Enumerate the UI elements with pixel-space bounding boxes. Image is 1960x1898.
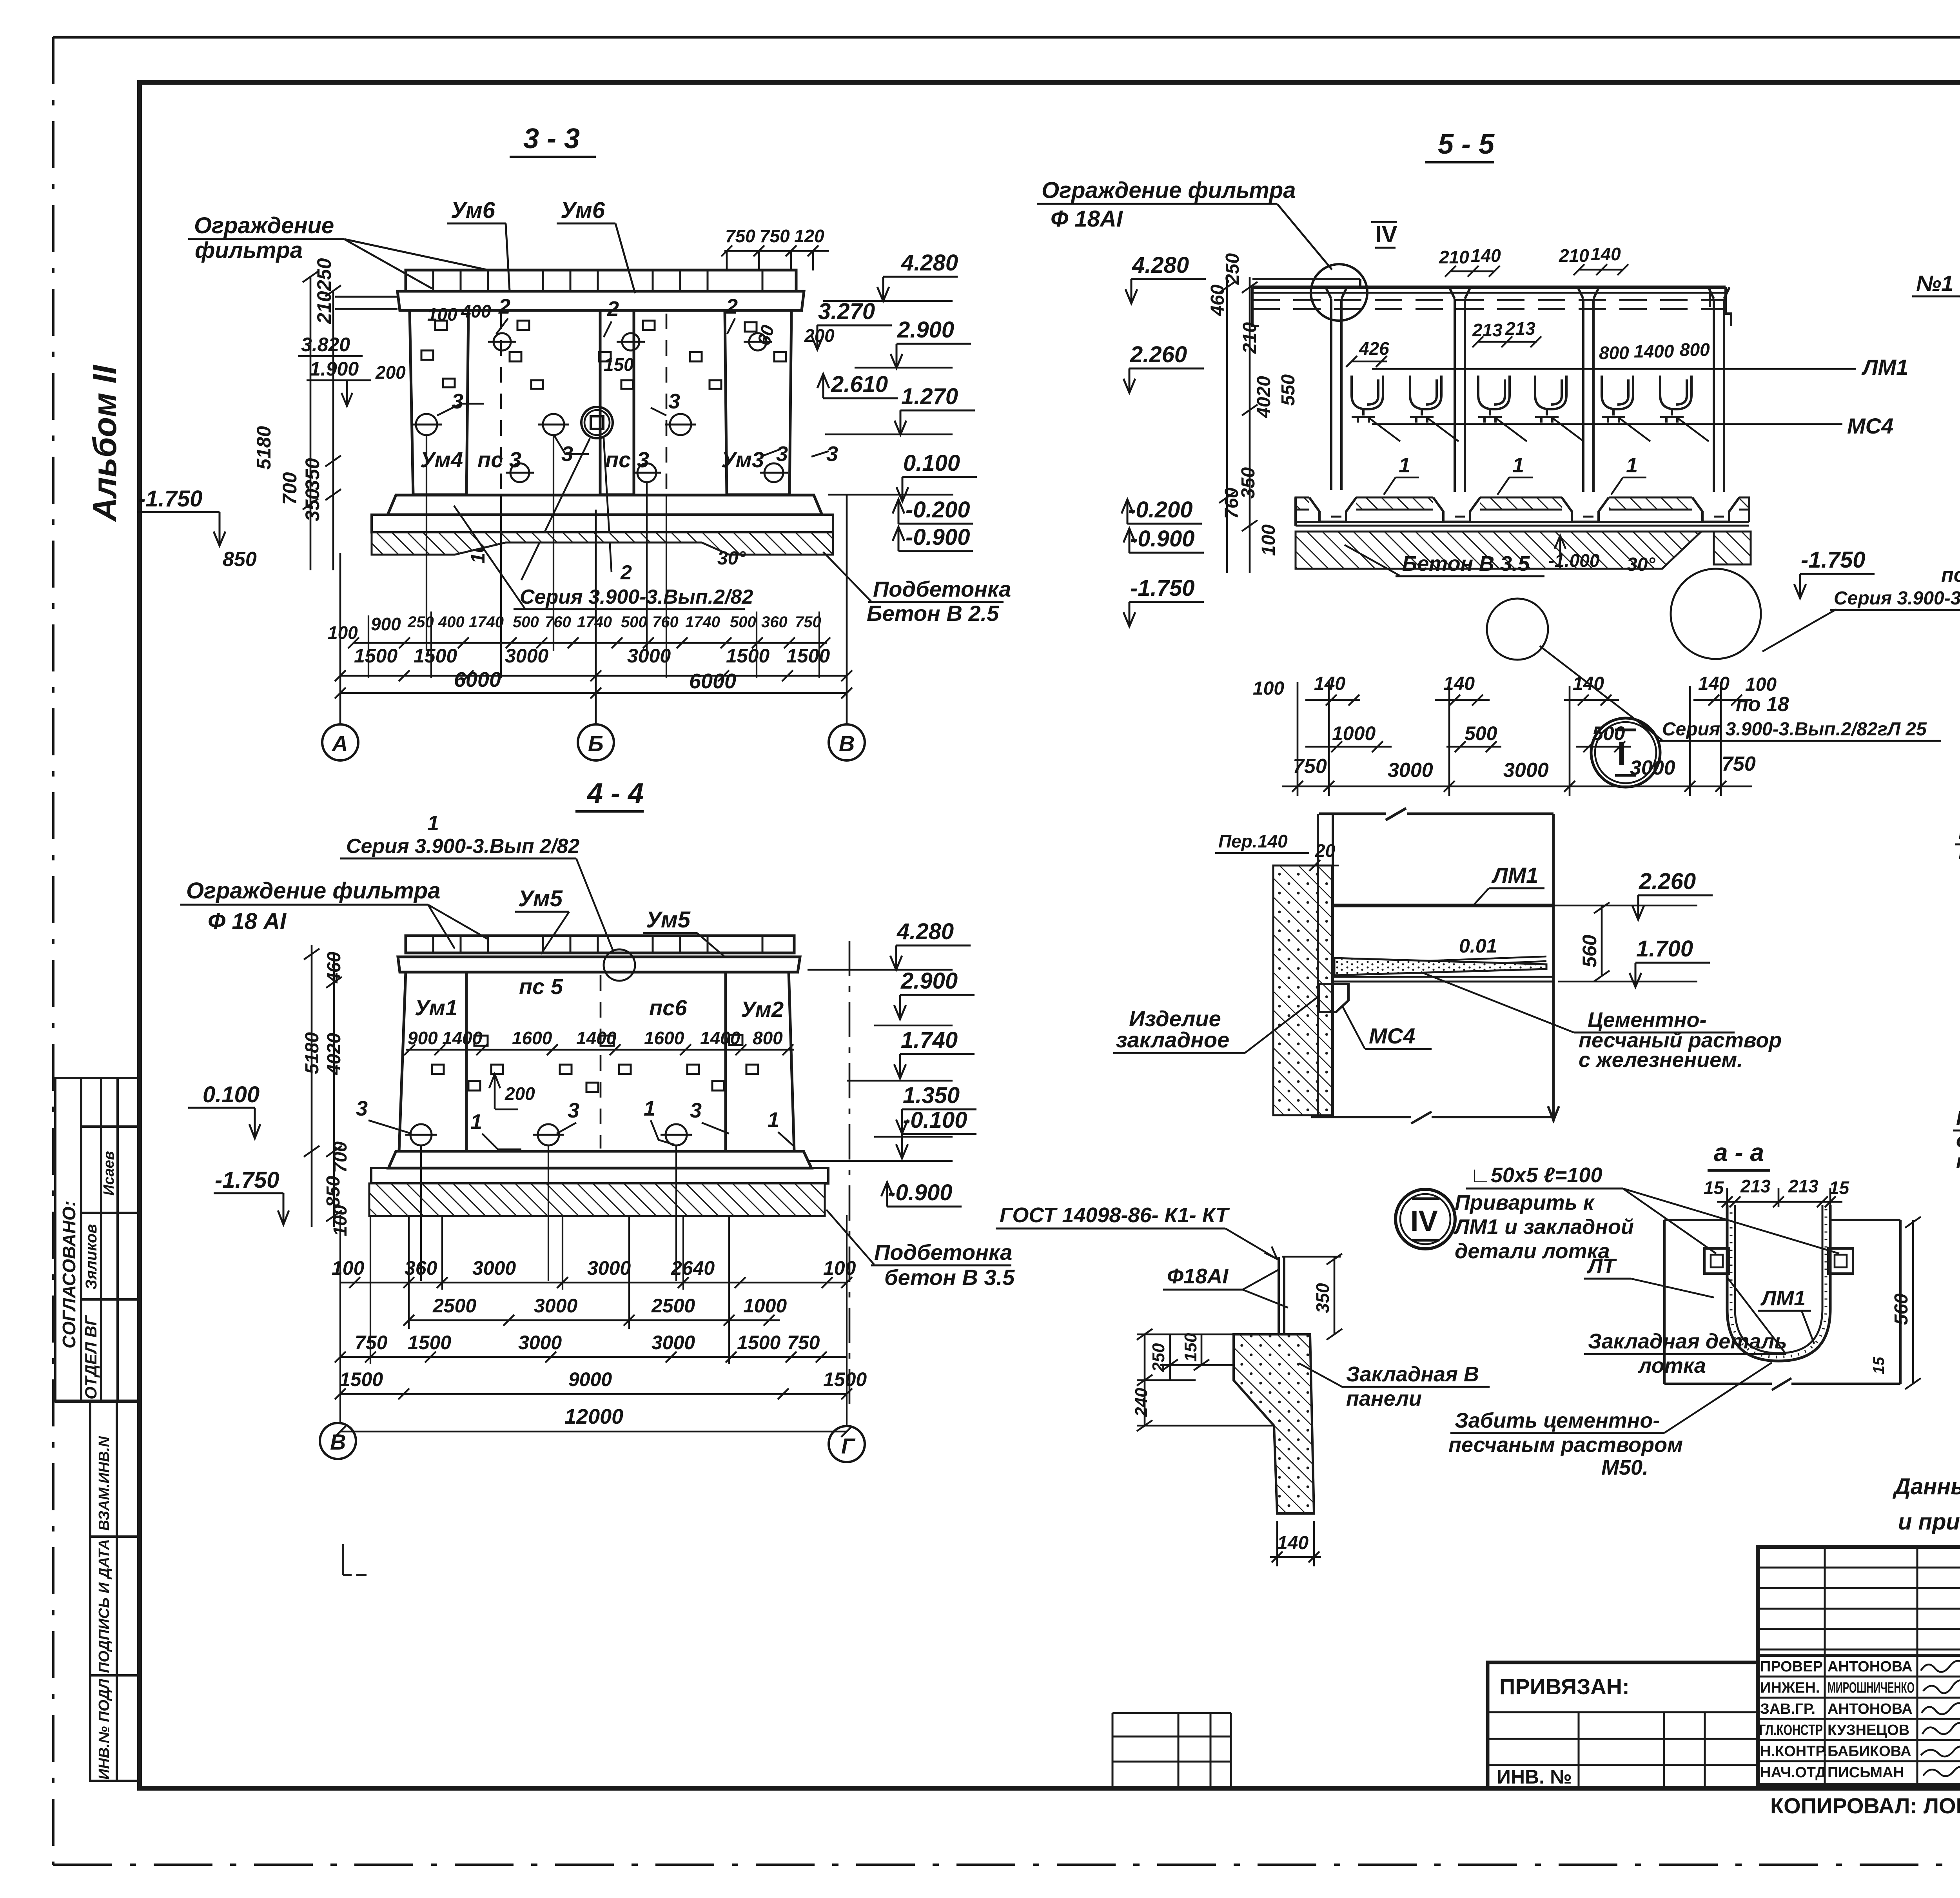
svg-text:500: 500 bbox=[513, 613, 539, 631]
svg-text:2: 2 bbox=[607, 297, 619, 321]
svg-text:1600: 1600 bbox=[644, 1028, 684, 1048]
3-3 wall labels bbox=[420, 447, 764, 472]
svg-text:750: 750 bbox=[787, 1332, 820, 1354]
svg-text:Бетон В 2.5: Бетон В 2.5 bbox=[867, 601, 999, 626]
svg-text:с железнением.: с железнением. bbox=[1579, 1048, 1743, 1072]
svg-text:350: 350 bbox=[301, 458, 323, 491]
svg-text:5180: 5180 bbox=[302, 1032, 323, 1074]
svg-text:800: 800 bbox=[1680, 339, 1710, 360]
svg-text:30°: 30° bbox=[1627, 554, 1655, 575]
3-3 right level 2.610 bbox=[817, 372, 898, 398]
a-a corner label bbox=[1466, 1163, 1839, 1254]
5-5 floor slab hatched bbox=[1296, 490, 1749, 527]
svg-text:20: 20 bbox=[1315, 840, 1336, 861]
left stamp table lower (inv/podpis) bbox=[90, 1401, 140, 1781]
3-3 axis circle A bbox=[322, 724, 358, 760]
5-5 callout leaders 1 bbox=[1384, 477, 1646, 495]
svg-text:ИНВ. №: ИНВ. № bbox=[1497, 1766, 1572, 1788]
svg-text:0.01: 0.01 bbox=[1459, 935, 1497, 957]
5-5 foundation top strip bbox=[1296, 526, 1749, 532]
svg-text:1.700: 1.700 bbox=[1636, 936, 1693, 962]
svg-text:500: 500 bbox=[730, 613, 756, 631]
svg-text:100: 100 bbox=[1745, 674, 1777, 695]
svg-text:Серия 3.900-3.Вып.2/82: Серия 3.900-3.Вып.2/82 bbox=[520, 586, 753, 608]
label ograzhdenie filtra 3-3 bbox=[188, 213, 490, 289]
svg-text:30°: 30° bbox=[717, 548, 746, 569]
svg-text:ВЗАМ.ИНВ.N: ВЗАМ.ИНВ.N bbox=[96, 1436, 113, 1531]
5-5 left rotated dims bbox=[1207, 253, 1299, 556]
3-3 dim 750 750 120 bbox=[721, 226, 829, 270]
3-3 anchor circles upper row bbox=[488, 333, 772, 350]
4-4 dim line A bbox=[340, 1277, 852, 1288]
node I LM1 label bbox=[1474, 863, 1544, 905]
4-4 left dim verticals bbox=[304, 945, 342, 1227]
3-3 dim row 6000 bbox=[454, 668, 736, 693]
svg-text:Серия 3.900-3.Вып 2/82: Серия 3.900-3.Вып 2/82 bbox=[346, 835, 579, 858]
a-a trough dotted core bbox=[1731, 1205, 1826, 1357]
3-3 dim row small bbox=[328, 614, 401, 643]
5-5 level -1.750 bbox=[1794, 547, 1875, 598]
3-3 left dim verticals bbox=[298, 271, 371, 570]
svg-text:ГОСТ 14098-86- К1- КТ: ГОСТ 14098-86- К1- КТ bbox=[1000, 1203, 1230, 1227]
4-4 label Um5 second bbox=[643, 907, 725, 957]
svg-text:∟50х5 ℓ=100: ∟50х5 ℓ=100 bbox=[1470, 1163, 1602, 1187]
svg-text:ГЛ.КОНСТР: ГЛ.КОНСТР bbox=[1759, 1722, 1823, 1738]
node III cement mortar label bbox=[1955, 821, 1960, 864]
a-a dim line top bbox=[1717, 1188, 1842, 1207]
svg-text:Ф 18АI: Ф 18АI bbox=[1051, 206, 1123, 232]
svg-text:6000: 6000 bbox=[454, 668, 501, 691]
5-5 funnel cups bbox=[1352, 376, 1691, 423]
5-5 callout circle mid bbox=[1487, 599, 1548, 660]
node IV mark on parapet bbox=[1311, 221, 1397, 321]
svg-text:150: 150 bbox=[604, 354, 634, 375]
svg-text:2500: 2500 bbox=[432, 1295, 476, 1317]
left stamp table upper (soglasovano) bbox=[55, 1078, 140, 1401]
svg-text:15: 15 bbox=[1704, 1178, 1724, 1198]
node I symbol circle bbox=[1591, 718, 1660, 787]
svg-text:5180: 5180 bbox=[253, 426, 275, 470]
5-5 MS4 leader line bbox=[1372, 414, 1893, 438]
svg-text:100: 100 bbox=[332, 1257, 365, 1279]
svg-text:2640: 2640 bbox=[671, 1257, 715, 1279]
svg-text:пс 3: пс 3 bbox=[605, 447, 649, 472]
a-a right washer bbox=[1828, 1248, 1853, 1274]
svg-text:3: 3 bbox=[452, 390, 463, 413]
svg-text:1500: 1500 bbox=[339, 1368, 383, 1390]
5-5 foundation hatched bbox=[1296, 532, 1701, 569]
small grid left of privyazan bbox=[1112, 1713, 1231, 1787]
4-4 dim row C bbox=[355, 1332, 820, 1354]
svg-text:по 18: по 18 bbox=[1736, 693, 1789, 716]
svg-text:закладное: закладное bbox=[1116, 1027, 1229, 1052]
svg-text:1740: 1740 bbox=[469, 613, 504, 631]
3-3 axis circle B bbox=[578, 724, 614, 760]
5-5 left level 4.280 bbox=[1125, 252, 1206, 303]
svg-text:бетон В 3.5: бетон В 3.5 bbox=[884, 1265, 1015, 1290]
5-5 pipe dim ticks bbox=[1445, 264, 1628, 277]
node IV symbol circle bbox=[1396, 1189, 1455, 1249]
svg-text:ОТДЕЛ ВГ: ОТДЕЛ ВГ bbox=[82, 1315, 100, 1399]
3-3 extension verticals through dims bbox=[368, 435, 819, 678]
node I level 2.260 bbox=[1632, 869, 1713, 920]
4-4 left rotated dims bbox=[302, 952, 351, 1236]
4-4 left wall bbox=[399, 972, 466, 1151]
svg-text:2.610: 2.610 bbox=[831, 372, 888, 397]
svg-text:3000: 3000 bbox=[534, 1295, 577, 1317]
svg-text:А: А bbox=[331, 731, 348, 756]
svg-text:560: 560 bbox=[1579, 934, 1601, 967]
4-4 label ograzhdenie filtra bbox=[180, 878, 488, 949]
svg-text:900: 900 bbox=[408, 1028, 438, 1048]
svg-text:ЛТ: ЛТ bbox=[1586, 1254, 1617, 1278]
svg-text:1.270: 1.270 bbox=[901, 384, 958, 409]
5-5 bottom dim ticks bbox=[1305, 695, 1752, 752]
svg-text:1: 1 bbox=[1512, 454, 1524, 477]
svg-text:1400: 1400 bbox=[700, 1028, 740, 1048]
svg-text:3000: 3000 bbox=[472, 1257, 516, 1279]
svg-text:100: 100 bbox=[1258, 524, 1279, 556]
svg-text:и привязке не подлежит: и привязке не подлежит bbox=[1898, 1509, 1960, 1535]
svg-text:Г: Г bbox=[841, 1433, 856, 1458]
svg-text:460: 460 bbox=[1207, 285, 1228, 316]
3-3 ps circle with square bbox=[581, 407, 613, 438]
title block roles column bbox=[1759, 1658, 1828, 1781]
node II No1 label bbox=[1912, 271, 1960, 321]
svg-text:ЛМ1 и закладной: ЛМ1 и закладной bbox=[1453, 1215, 1634, 1239]
svg-text:1.900: 1.900 bbox=[310, 358, 359, 380]
svg-text:213: 213 bbox=[1788, 1176, 1818, 1196]
4-4 label Um5 first bbox=[515, 886, 569, 954]
label Um6 left bbox=[447, 198, 510, 291]
5-5 cup dim ticks bbox=[1346, 336, 1541, 367]
svg-text:3000: 3000 bbox=[1388, 759, 1433, 782]
3-3 dim line 6000 bbox=[335, 688, 852, 699]
svg-text:3000: 3000 bbox=[587, 1257, 631, 1279]
svg-text:Ф 18 АI: Ф 18 АI bbox=[208, 909, 287, 934]
5-5 right foundation block bbox=[1714, 532, 1751, 564]
svg-text:210: 210 bbox=[1559, 245, 1589, 266]
4-4 dim row E 12000 bbox=[335, 1405, 852, 1437]
svg-text:800: 800 bbox=[753, 1028, 783, 1048]
svg-text:400: 400 bbox=[461, 301, 491, 321]
svg-text:3: 3 bbox=[690, 1099, 702, 1122]
svg-text:Пер.: Пер. bbox=[1218, 831, 1258, 851]
3-3 anchor circles lower row bbox=[506, 463, 788, 482]
a-a trough outer bbox=[1727, 1205, 1830, 1361]
svg-text:500: 500 bbox=[621, 613, 647, 631]
f18 left dims bbox=[1137, 1329, 1274, 1431]
svg-text:800: 800 bbox=[1599, 343, 1629, 363]
svg-text:1500: 1500 bbox=[786, 645, 830, 667]
svg-text:210: 210 bbox=[1240, 322, 1260, 354]
svg-text:1: 1 bbox=[768, 1108, 779, 1132]
svg-text:АНТОНОВА: АНТОНОВА bbox=[1828, 1658, 1913, 1675]
svg-text:Закладная деталь: Закладная деталь bbox=[1588, 1330, 1787, 1353]
5-5 left level -0.200 bbox=[1122, 497, 1202, 524]
svg-text:12000: 12000 bbox=[564, 1405, 623, 1428]
svg-text:6000: 6000 bbox=[689, 670, 736, 693]
3-3 anchor circles mid row bbox=[411, 414, 696, 435]
4-4 left level -1.750 bbox=[214, 1167, 289, 1225]
node I level line 2260 bbox=[1553, 905, 1697, 907]
svg-text:1000: 1000 bbox=[1332, 722, 1376, 744]
svg-text:Ограждение фильтра: Ограждение фильтра bbox=[1042, 178, 1296, 203]
svg-text:240: 240 bbox=[1132, 1388, 1151, 1417]
svg-text:по 17: по 17 bbox=[1941, 564, 1960, 586]
svg-text:-0.900: -0.900 bbox=[888, 1180, 952, 1205]
svg-text:700: 700 bbox=[330, 1141, 351, 1173]
svg-text:150: 150 bbox=[1181, 1333, 1200, 1362]
svg-text:4020: 4020 bbox=[1254, 376, 1274, 418]
4-4 dim line row bbox=[404, 1044, 794, 1055]
svg-text:3000: 3000 bbox=[627, 645, 671, 667]
svg-text:750: 750 bbox=[795, 613, 821, 631]
svg-text:тажа лотков.: тажа лотков. bbox=[1956, 1150, 1960, 1173]
title block left grid bbox=[1758, 1547, 1960, 1785]
3-3 left wall bbox=[410, 310, 468, 495]
svg-text:Н.КОНТР.: Н.КОНТР. bbox=[1760, 1743, 1828, 1760]
svg-text:3: 3 bbox=[356, 1097, 368, 1120]
svg-text:Забить цементно-: Забить цементно- bbox=[1455, 1409, 1660, 1432]
svg-text:IV: IV bbox=[1410, 1205, 1438, 1237]
svg-text:1740: 1740 bbox=[685, 613, 720, 631]
svg-text:3: 3 bbox=[776, 442, 788, 466]
svg-text:-1.750: -1.750 bbox=[1130, 575, 1194, 601]
svg-text:ПРИВЯЗАН:: ПРИВЯЗАН: bbox=[1499, 1674, 1630, 1699]
svg-text:ЛМ1: ЛМ1 bbox=[1491, 863, 1538, 887]
svg-text:Данный чертеж является спра: Данный чертеж является спрабочным матери… bbox=[1892, 1474, 1960, 1499]
5-5 callout digits 1 bbox=[1399, 454, 1638, 477]
4-4 floor slab bbox=[388, 1151, 811, 1168]
svg-text:В: В bbox=[839, 731, 855, 756]
3-3 podbetonka label bbox=[823, 552, 1011, 626]
svg-text:350: 350 bbox=[1312, 1283, 1333, 1313]
a-a left washer bbox=[1704, 1248, 1729, 1274]
title block signatures bbox=[1921, 1661, 1960, 1776]
node I cement label bbox=[1421, 972, 1782, 1072]
svg-text:ИНВ.№ ПОДЛ: ИНВ.№ ПОДЛ bbox=[96, 1678, 113, 1780]
4-4 axis circle G bbox=[829, 1426, 865, 1462]
a-a floor lines bbox=[1664, 1220, 1900, 1390]
4-4 callout circle on slab bbox=[604, 949, 635, 981]
3-3 right level 1.270 bbox=[895, 384, 975, 435]
5-5 bottom dims 140 bbox=[1253, 673, 1777, 699]
svg-text:1: 1 bbox=[1399, 454, 1410, 477]
5-5 minus1000 mark bbox=[1548, 535, 1600, 571]
svg-text:750: 750 bbox=[725, 226, 755, 246]
label ograzhdenie filtra 5-5 bbox=[1037, 178, 1332, 270]
5-5 ceiling slab bbox=[1252, 279, 1731, 326]
3-3 right level -0.200 bbox=[893, 497, 973, 524]
svg-text:Ограждение фильтра: Ограждение фильтра bbox=[186, 878, 440, 904]
svg-text:1: 1 bbox=[427, 811, 439, 835]
label Um6 right bbox=[557, 198, 635, 293]
4-4 right wall bbox=[726, 972, 794, 1151]
svg-text:3000: 3000 bbox=[1503, 759, 1549, 782]
title block main dividers bbox=[1758, 1547, 1960, 1785]
3-3 right level 3.270 bbox=[811, 299, 892, 350]
svg-text:1.740: 1.740 bbox=[901, 1027, 958, 1053]
svg-text:Серия 3.900-3.Вып.2/82гЛ 25: Серия 3.900-3.Вып.2/82гЛ 25 bbox=[1662, 719, 1927, 740]
3-3 top slab bbox=[335, 291, 804, 310]
3-3 dim row detail bbox=[407, 613, 821, 631]
svg-text:550: 550 bbox=[1278, 374, 1299, 406]
svg-text:5 - 5: 5 - 5 bbox=[1438, 129, 1495, 160]
svg-text:а - а: а - а bbox=[1714, 1138, 1764, 1167]
svg-text:3000: 3000 bbox=[652, 1332, 695, 1354]
svg-text:250: 250 bbox=[1149, 1343, 1168, 1372]
svg-text:2.900: 2.900 bbox=[900, 968, 958, 994]
svg-text:1740: 1740 bbox=[577, 613, 612, 631]
svg-text:210: 210 bbox=[313, 291, 335, 324]
svg-text:Ум5: Ум5 bbox=[646, 907, 691, 933]
svg-text:2.260: 2.260 bbox=[1639, 869, 1696, 894]
svg-text:140: 140 bbox=[1698, 673, 1730, 694]
svg-text:Ум1: Ум1 bbox=[415, 995, 457, 1020]
svg-text:1400: 1400 bbox=[1634, 341, 1674, 361]
svg-text:до бетонирования и мон-: до бетонирования и мон- bbox=[1956, 1129, 1960, 1152]
svg-text:СОГЛАСОВАНО:: СОГЛАСОВАНО: bbox=[59, 1201, 79, 1348]
svg-text:100: 100 bbox=[1253, 678, 1284, 699]
4-4 dim line B bbox=[403, 1315, 780, 1326]
svg-text:БАБИКОВА: БАБИКОВА bbox=[1828, 1743, 1911, 1760]
svg-text:9000: 9000 bbox=[568, 1368, 612, 1390]
a-a trough inner bbox=[1735, 1205, 1822, 1353]
svg-text:1500: 1500 bbox=[414, 645, 457, 667]
3-3 right level 2.900 bbox=[891, 317, 971, 368]
svg-text:ПИСЬМАН: ПИСЬМАН bbox=[1828, 1764, 1904, 1781]
svg-text:Серия 3.900-3 Вып.2/82 л5: Серия 3.900-3 Вып.2/82 л5 bbox=[1834, 588, 1960, 609]
svg-text:ЗАВ.ГР.: ЗАВ.ГР. bbox=[1760, 1701, 1815, 1717]
4-4 axis circle V bbox=[320, 1423, 356, 1459]
svg-text:213: 213 bbox=[1740, 1176, 1771, 1196]
svg-text:350: 350 bbox=[301, 488, 323, 521]
node I izdelie zakladnoe label bbox=[1113, 996, 1319, 1053]
5-5 left level -1.750 bbox=[1123, 575, 1204, 626]
svg-text:Ум5: Ум5 bbox=[518, 886, 563, 911]
svg-text:4.280: 4.280 bbox=[901, 250, 958, 276]
node I MS4 label bbox=[1342, 1006, 1432, 1049]
svg-text:пс 3: пс 3 bbox=[477, 447, 521, 472]
4-4 wall labels bbox=[415, 974, 784, 1022]
4-4 dim row D bbox=[339, 1368, 867, 1390]
section 5-5 title bbox=[1425, 129, 1495, 162]
3-3 parapet band bbox=[406, 270, 796, 291]
svg-text:750: 750 bbox=[1722, 753, 1756, 775]
svg-text:Подбетонка: Подбетонка bbox=[874, 1240, 1012, 1265]
svg-text:4 - 4: 4 - 4 bbox=[586, 778, 644, 809]
svg-text:1400: 1400 bbox=[576, 1028, 617, 1048]
svg-text:1500: 1500 bbox=[408, 1332, 451, 1354]
node I per-140-20 labels bbox=[1215, 831, 1339, 871]
svg-text:140: 140 bbox=[1591, 244, 1621, 264]
5-5 bottom dims 1000-500 bbox=[1332, 722, 1625, 744]
svg-text:-0.900: -0.900 bbox=[906, 524, 970, 550]
svg-text:3.820: 3.820 bbox=[301, 334, 350, 356]
3-3 callout leaders bbox=[437, 318, 829, 580]
svg-text:панели: панели bbox=[1346, 1387, 1422, 1410]
svg-text:IV: IV bbox=[1375, 221, 1397, 247]
svg-text:лотка: лотка bbox=[1637, 1354, 1706, 1377]
3-3 small callout digits bbox=[452, 295, 838, 466]
svg-text:210: 210 bbox=[1439, 247, 1469, 267]
node I level 1.700 bbox=[1630, 936, 1710, 987]
svg-text:1400: 1400 bbox=[442, 1028, 483, 1048]
node I level line 1700 bbox=[1558, 981, 1697, 983]
a-a zabit label bbox=[1448, 1363, 1772, 1479]
5-5 left level -0.900 bbox=[1123, 526, 1204, 553]
svg-text:МИРОШНИЧЕНКО: МИРОШНИЧЕНКО bbox=[1828, 1680, 1915, 1696]
svg-text:Цементно-: Цементно- bbox=[1588, 1008, 1707, 1032]
svg-text:-0.900: -0.900 bbox=[1130, 526, 1194, 552]
node I dim 560 bbox=[1579, 902, 1610, 982]
node I MS4 block bbox=[1319, 984, 1348, 1012]
svg-text:1000: 1000 bbox=[743, 1295, 787, 1317]
svg-text:1600: 1600 bbox=[512, 1028, 552, 1048]
4-4 dim 200 bbox=[489, 1074, 535, 1109]
5-5 po17 label bbox=[1762, 564, 1960, 651]
f18 anchor rod bbox=[1269, 1257, 1294, 1369]
f18 zakladnaya v paneli label bbox=[1299, 1363, 1490, 1410]
svg-text:Б: Б bbox=[588, 731, 604, 756]
5-5 bottom dim row 3000 bbox=[1293, 753, 1756, 782]
svg-text:1500: 1500 bbox=[354, 645, 397, 667]
svg-text:400: 400 bbox=[438, 613, 465, 631]
4-4 foundation slab bbox=[371, 1168, 828, 1183]
svg-text:1500: 1500 bbox=[737, 1332, 780, 1354]
svg-text:2.260: 2.260 bbox=[1130, 342, 1187, 367]
svg-text:560: 560 bbox=[1891, 1294, 1912, 1325]
svg-text:№1: №1 bbox=[1916, 271, 1953, 296]
svg-text:4.280: 4.280 bbox=[1132, 252, 1189, 278]
svg-text:140: 140 bbox=[1277, 1533, 1308, 1553]
svg-text:3: 3 bbox=[568, 1099, 579, 1122]
3-3 left level -1.750 bbox=[137, 486, 257, 571]
5-5 LM1 leader line bbox=[1372, 355, 1908, 379]
svg-text:Приварить к: Приварить к bbox=[1455, 1191, 1595, 1214]
4-4 parapet band bbox=[406, 936, 794, 953]
svg-text:пс 5: пс 5 bbox=[519, 974, 563, 999]
3-3 floor slab bbox=[388, 495, 822, 515]
svg-text:ПРОВЕР: ПРОВЕР bbox=[1760, 1658, 1823, 1675]
3-3 foundation slab bbox=[372, 515, 833, 532]
a-a title bbox=[1708, 1138, 1770, 1170]
f18 gost label bbox=[996, 1203, 1277, 1259]
svg-text:Ф18АI: Ф18АI bbox=[1167, 1265, 1229, 1288]
svg-text:Ограждение: Ограждение bbox=[194, 213, 334, 238]
svg-text:460: 460 bbox=[324, 952, 345, 983]
3-3 right level 4.280 bbox=[877, 250, 958, 301]
paragraph spravochny bbox=[1892, 1474, 1960, 1535]
svg-text:МС4: МС4 bbox=[1847, 414, 1893, 438]
3-3 top small dims bbox=[375, 301, 835, 383]
4-4 dim row B bbox=[432, 1295, 787, 1317]
4-4 dim line C bbox=[335, 1352, 847, 1363]
4-4 left level 0.100 bbox=[188, 1082, 260, 1138]
4-4 joint line dashed bbox=[600, 975, 602, 1149]
svg-text:-0.100: -0.100 bbox=[903, 1107, 967, 1133]
4-4 right levels bbox=[890, 919, 971, 970]
4-4 axis dashdot right bbox=[849, 941, 851, 1411]
4-4 right level lines bbox=[808, 970, 953, 1161]
4-4 callout digits bbox=[356, 1097, 779, 1134]
svg-text:Исаев: Исаев bbox=[101, 1151, 117, 1196]
3-3 seria label bbox=[454, 506, 753, 609]
svg-text:М50.: М50. bbox=[1601, 1456, 1648, 1479]
4-4 podbetonka label bbox=[826, 1210, 1015, 1290]
svg-text:ЛМ1: ЛМ1 bbox=[1861, 355, 1908, 379]
